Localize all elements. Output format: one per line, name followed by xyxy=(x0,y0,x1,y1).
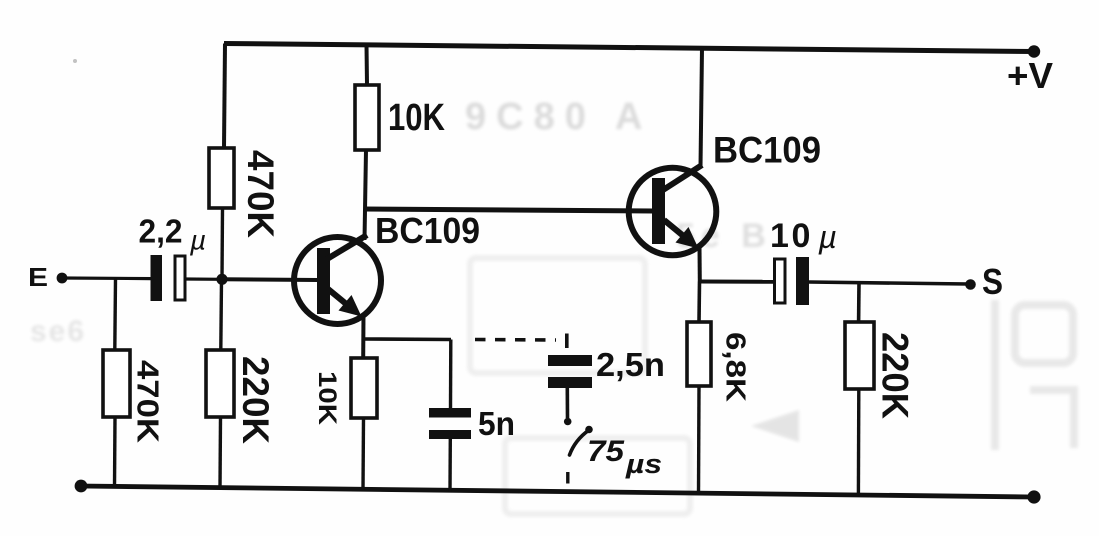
+V power rail (top) xyxy=(224,44,1034,52)
resistor R6 6.8K body xyxy=(687,322,711,386)
capacitor C2 5n top plate xyxy=(429,408,471,418)
wire S node down to R7 xyxy=(857,283,861,323)
wire Q1 collector to Q2 base xyxy=(364,209,653,211)
wire C2 bottom to ground xyxy=(448,439,452,492)
wire C3 bottom to switch xyxy=(565,388,569,418)
svg-text:E: E xyxy=(28,262,48,292)
transistor Q1 collector stroke xyxy=(327,235,367,259)
svg-text:2,5n: 2,5n xyxy=(596,346,665,383)
transistor Q2 BC109 circle xyxy=(629,168,717,256)
resistor R3 220K body xyxy=(206,350,234,417)
svg-text:µs: µs xyxy=(625,449,662,479)
capacitor C1 2.2u solid plate xyxy=(151,255,163,301)
node A junction dot xyxy=(216,274,227,285)
dashed wire to 75us network xyxy=(475,338,556,342)
svg-text:µ: µ xyxy=(189,225,206,256)
transistor Q1 emitter stroke xyxy=(328,289,356,312)
wire top rail down to R2 xyxy=(224,44,225,149)
wire node A down to R3 xyxy=(219,279,223,350)
wire C1 to node A xyxy=(185,277,222,280)
svg-text:S: S xyxy=(982,261,1003,302)
switch SW1 top contact dot xyxy=(564,418,572,426)
switch SW1 lever contact dot xyxy=(585,426,593,434)
wire junction E column down to R1 xyxy=(113,279,117,350)
resistor R2 470K body xyxy=(209,148,234,208)
resistor R7 220K body xyxy=(845,322,874,389)
svg-text:75: 75 xyxy=(587,435,625,468)
output terminal S dot xyxy=(965,279,976,290)
wire R6 bottom to ground xyxy=(697,386,701,494)
transistor Q2 collector stroke xyxy=(663,165,702,190)
resistor R5 10K body xyxy=(351,358,377,418)
capacitor C2 5n bottom plate xyxy=(429,430,471,439)
wire Q1 emitter down xyxy=(361,314,365,358)
wire R5 bottom to ground xyxy=(361,418,365,490)
wire node A to Q1 base xyxy=(222,277,318,282)
svg-text:+V: +V xyxy=(1007,55,1053,96)
wire Q2 emitter node down to R6 xyxy=(697,282,701,323)
svg-text:470K: 470K xyxy=(240,150,281,238)
svg-text:220K: 220K xyxy=(875,332,916,419)
capacitor C1 2.2u hollow plate xyxy=(175,256,185,300)
switch SW1 lever xyxy=(570,430,590,455)
svg-text:9C80 A: 9C80 A xyxy=(465,96,652,138)
svg-text:2,2: 2,2 xyxy=(139,213,183,250)
wire Q1 emitter branch to C2 xyxy=(364,337,452,341)
wire Q2 emitter node to C4 xyxy=(700,280,774,284)
svg-text:6,8K: 6,8K xyxy=(721,332,752,402)
ghost pcb traces right xyxy=(995,300,1074,450)
+V terminal dot xyxy=(1028,45,1040,57)
resistor R4 10K body xyxy=(355,85,379,150)
ghost pcb traces bottom center xyxy=(470,258,799,514)
svg-text:BC109: BC109 xyxy=(375,210,480,251)
wire Q2 emitter down to node xyxy=(698,247,702,282)
svg-text:470K: 470K xyxy=(130,360,165,444)
resistor R1 470K body xyxy=(103,350,130,417)
transistor Q1 emitter arrowhead xyxy=(339,295,362,317)
ground rail right terminal dot xyxy=(1027,490,1040,503)
capacitor C3 2.5n bottom plate xyxy=(548,377,592,388)
ground rail left terminal dot xyxy=(75,480,88,493)
svg-text:BC109: BC109 xyxy=(713,130,821,171)
transistor Q1 BC109 circle xyxy=(294,237,381,324)
wire stub down to C3 xyxy=(565,334,569,349)
wire R1 bottom to ground xyxy=(113,417,117,487)
wire R7 bottom to ground xyxy=(857,389,861,495)
svg-text:10K: 10K xyxy=(313,371,341,425)
switch SW1 dashed lead to ground xyxy=(566,472,569,484)
svg-text:220K: 220K xyxy=(235,356,276,444)
capacitor C3 2.5n top plate xyxy=(548,355,592,366)
wire Q1 collector up to R4 xyxy=(365,150,367,240)
svg-text:5n: 5n xyxy=(478,405,515,442)
svg-text:1: 1 xyxy=(770,217,789,255)
transistor Q2 emitter stroke xyxy=(664,220,692,243)
wire down to C2 top plate xyxy=(449,340,453,409)
ground rail (bottom) xyxy=(80,486,1034,497)
svg-text:0: 0 xyxy=(792,217,811,255)
capacitor C4 10u hollow plate xyxy=(775,259,786,303)
wire Q2 collector to +V rail xyxy=(701,48,703,167)
wire R4 top to +V rail xyxy=(365,45,370,85)
transistor Q1 base bar xyxy=(317,248,330,314)
capacitor C4 10u solid plate xyxy=(796,257,809,305)
ghost speck top left xyxy=(73,59,77,63)
svg-text:10K: 10K xyxy=(388,97,445,139)
input terminal E dot xyxy=(57,273,68,284)
transistor Q2 base bar xyxy=(652,178,665,244)
wire R3 bottom to ground xyxy=(218,417,222,488)
svg-text:µ: µ xyxy=(818,219,837,255)
transistor Q2 emitter arrowhead xyxy=(676,227,699,249)
wire R2 bottom to node A xyxy=(220,208,224,279)
wire C4 to output S xyxy=(809,282,968,284)
wire E to C1 xyxy=(62,276,152,280)
svg-text:se6: se6 xyxy=(30,315,86,348)
